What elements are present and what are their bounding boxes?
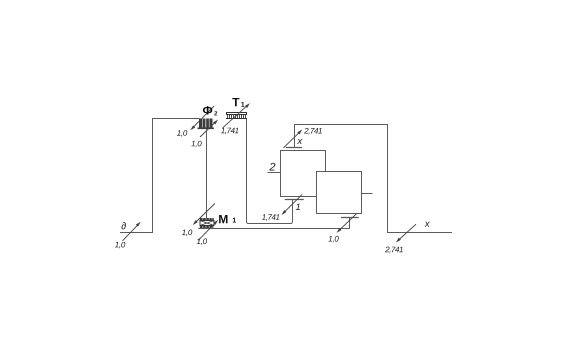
label 1,0 under F2 [191, 141, 201, 148]
mass M1 (crossed box with hatched pads) [200, 218, 214, 228]
label M1 [219, 215, 227, 223]
arrow x top [283, 130, 302, 148]
arrow F2 down-left [190, 106, 214, 130]
label x top [297, 139, 302, 144]
node tick under block 1 [341, 217, 359, 219]
label T1 subscript [241, 102, 244, 107]
wire top x line to output [295, 125, 452, 233]
wire T1 down to node 1 [247, 118, 293, 224]
label 1,0 at d [115, 242, 125, 249]
wire block1 support to baseline [349, 218, 351, 229]
arrow node 1 down-left [281, 195, 302, 215]
arrow T1 up-right [223, 103, 250, 128]
label F2 [203, 106, 212, 114]
label d [121, 222, 125, 229]
arrow x output down-left [396, 224, 416, 242]
label 1,741 at T1 [221, 128, 238, 135]
label x bottom right [425, 222, 430, 227]
arrow F2 up-right [200, 120, 218, 138]
spring T1 (pad with comb hatch) [226, 113, 247, 119]
arrow under block 1 down-left [337, 213, 357, 233]
label 2 at block 2 [269, 163, 275, 171]
label 2,741 bottom right [385, 247, 403, 254]
arrow d input [123, 222, 141, 241]
stub on right of block 1 [362, 193, 373, 195]
label F2 subscript [214, 111, 217, 115]
arrow M1 up-right [198, 220, 218, 241]
label 1,0 under M1 [197, 238, 207, 245]
label 1,0 left of F2 [177, 130, 187, 137]
block 2 (rear rectangle) [281, 151, 326, 197]
wire input left [120, 119, 200, 233]
label 2 lead line [268, 172, 281, 174]
arrow M1 down-left [193, 204, 215, 226]
label 1,741 at node 1 [262, 214, 279, 221]
node tick above block 2 [286, 147, 302, 149]
damper F2 (hatched box) [198, 119, 214, 130]
label 1 at node [296, 204, 300, 210]
label 1,0 under block 1 [328, 236, 338, 243]
label T1 [232, 98, 239, 106]
node tick under block 2 [285, 199, 304, 201]
wire main baseline [198, 228, 349, 230]
block 1 (front rectangle) [317, 172, 362, 214]
label 1,0 left of M1 [182, 230, 192, 237]
label M1 subscript [233, 218, 236, 223]
label 2,741 top [304, 128, 322, 135]
wire F2 to M1 [206, 129, 208, 218]
